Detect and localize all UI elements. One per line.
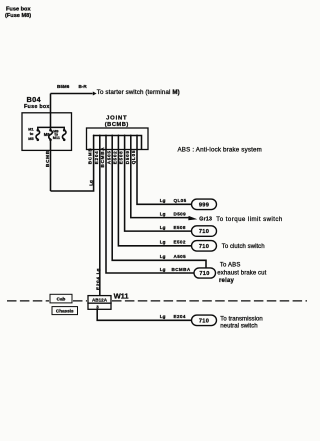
svg-text:B5M6: B5M6	[57, 84, 70, 89]
svg-text:999: 999	[199, 202, 209, 208]
oval 999 ref	[192, 199, 217, 210]
svg-text:neutral switch: neutral switch	[220, 323, 257, 329]
svg-text:W11: W11	[114, 292, 130, 301]
fuse M9-M11	[62, 130, 66, 139]
wire E502	[118, 150, 191, 246]
wire E204 down to W11	[99, 150, 101, 296]
svg-text:M5: M5	[28, 137, 33, 141]
svg-text:BCMBA: BCMBA	[100, 147, 105, 168]
cab/chassis dashed separator	[7, 300, 307, 302]
wire E508	[125, 150, 192, 232]
connector AB12A box	[88, 296, 111, 304]
wire E204 below W11 to oval	[97, 309, 191, 320]
svg-text:To starter switch (terminal M): To starter switch (terminal M)	[97, 89, 180, 96]
wire BCMBA	[106, 150, 194, 274]
svg-text:To clutch switch: To clutch switch	[222, 244, 265, 250]
oval 710 bottom	[192, 315, 217, 326]
svg-text:E204: E204	[174, 314, 186, 319]
wire B5M6 to starter switch	[51, 93, 93, 95]
svg-text:Lg: Lg	[95, 268, 100, 274]
svg-text:BCMB: BCMB	[88, 148, 93, 165]
arrow to starter switch	[93, 92, 97, 96]
svg-text:exhaust brake cut: exhaust brake cut	[217, 270, 266, 276]
svg-text:ABS : Anti-lock brake system: ABS : Anti-lock brake system	[178, 147, 262, 154]
svg-text:Lg: Lg	[160, 211, 166, 216]
svg-text:Lg: Lg	[160, 254, 166, 259]
svg-text:(Fuse M8): (Fuse M8)	[5, 13, 31, 19]
svg-text:Chassis: Chassis	[56, 309, 74, 314]
joint teeth	[94, 136, 137, 150]
svg-text:JOINT: JOINT	[106, 115, 127, 121]
svg-text:E508: E508	[174, 225, 186, 230]
svg-text:710: 710	[199, 271, 209, 277]
svg-text:710: 710	[199, 229, 209, 235]
svg-text:BCMB: BCMB	[45, 150, 50, 167]
svg-text:E204: E204	[94, 151, 99, 165]
svg-text:Fuse box: Fuse box	[6, 6, 31, 12]
svg-text:Lg: Lg	[160, 225, 166, 230]
chassis label box	[52, 307, 78, 315]
svg-text:M11: M11	[53, 136, 60, 140]
svg-text:To torque limit switch: To torque limit switch	[216, 216, 282, 223]
svg-text:710: 710	[199, 244, 209, 250]
svg-text:To transmission: To transmission	[220, 317, 262, 323]
svg-text:BCMBA: BCMBA	[172, 267, 191, 272]
svg-text:E204: E204	[95, 276, 100, 290]
wire D509	[131, 150, 189, 218]
svg-text:710: 710	[199, 318, 209, 324]
svg-text:To ABS: To ABS	[220, 262, 241, 268]
svg-text:E508: E508	[119, 151, 124, 165]
fuse M8	[49, 130, 53, 139]
fuse terminal dots	[37, 129, 40, 132]
svg-text:Gr13: Gr13	[199, 216, 212, 222]
svg-text:E502: E502	[113, 151, 118, 165]
svg-text:B-R: B-R	[79, 84, 88, 89]
svg-text:QL05: QL05	[174, 198, 187, 203]
fuse M1-M5	[36, 130, 40, 139]
wire A505	[112, 150, 206, 268]
svg-text:M1: M1	[28, 128, 33, 132]
svg-text:Lg: Lg	[160, 267, 166, 272]
svg-text:D509: D509	[174, 211, 187, 216]
oval 710 row4	[192, 241, 217, 252]
svg-text:E502: E502	[174, 240, 186, 245]
oval 710 row3	[192, 226, 217, 237]
svg-text:(BCMB): (BCMB)	[105, 122, 129, 128]
junction dot bus/M8	[50, 127, 52, 129]
svg-text:relay: relay	[219, 278, 234, 284]
joint bus dots	[93, 134, 95, 136]
svg-text:Lg: Lg	[160, 240, 166, 245]
fuse box B04	[22, 113, 72, 151]
svg-text:D509: D509	[125, 150, 130, 164]
svg-text:QL05: QL05	[131, 150, 136, 165]
svg-text:Lg: Lg	[160, 314, 166, 319]
arrow to Gr13	[188, 216, 197, 220]
joint connector box BCMB	[87, 128, 149, 150]
connector AB12A pin box	[88, 303, 111, 309]
cab label box	[50, 294, 78, 314]
fuse bus in fuse box	[38, 127, 64, 129]
joint bus bar	[94, 136, 142, 150]
svg-text:B04: B04	[27, 95, 42, 104]
svg-text:Lg: Lg	[160, 198, 166, 203]
oval 710 row6 ABS	[194, 268, 216, 278]
svg-text:AB12A: AB12A	[92, 297, 108, 302]
svg-text:M8: M8	[44, 132, 50, 137]
wire fuse-box vertical (BCMB)	[50, 94, 52, 192]
svg-text:Fuse box: Fuse box	[24, 104, 50, 110]
svg-text:A505: A505	[174, 254, 187, 259]
svg-text:Cab: Cab	[57, 296, 66, 301]
svg-text:Lg: Lg	[88, 180, 93, 186]
wire BCMB elbow to joint	[51, 150, 94, 192]
svg-text:A505: A505	[106, 150, 111, 164]
wire QL05	[137, 150, 192, 205]
